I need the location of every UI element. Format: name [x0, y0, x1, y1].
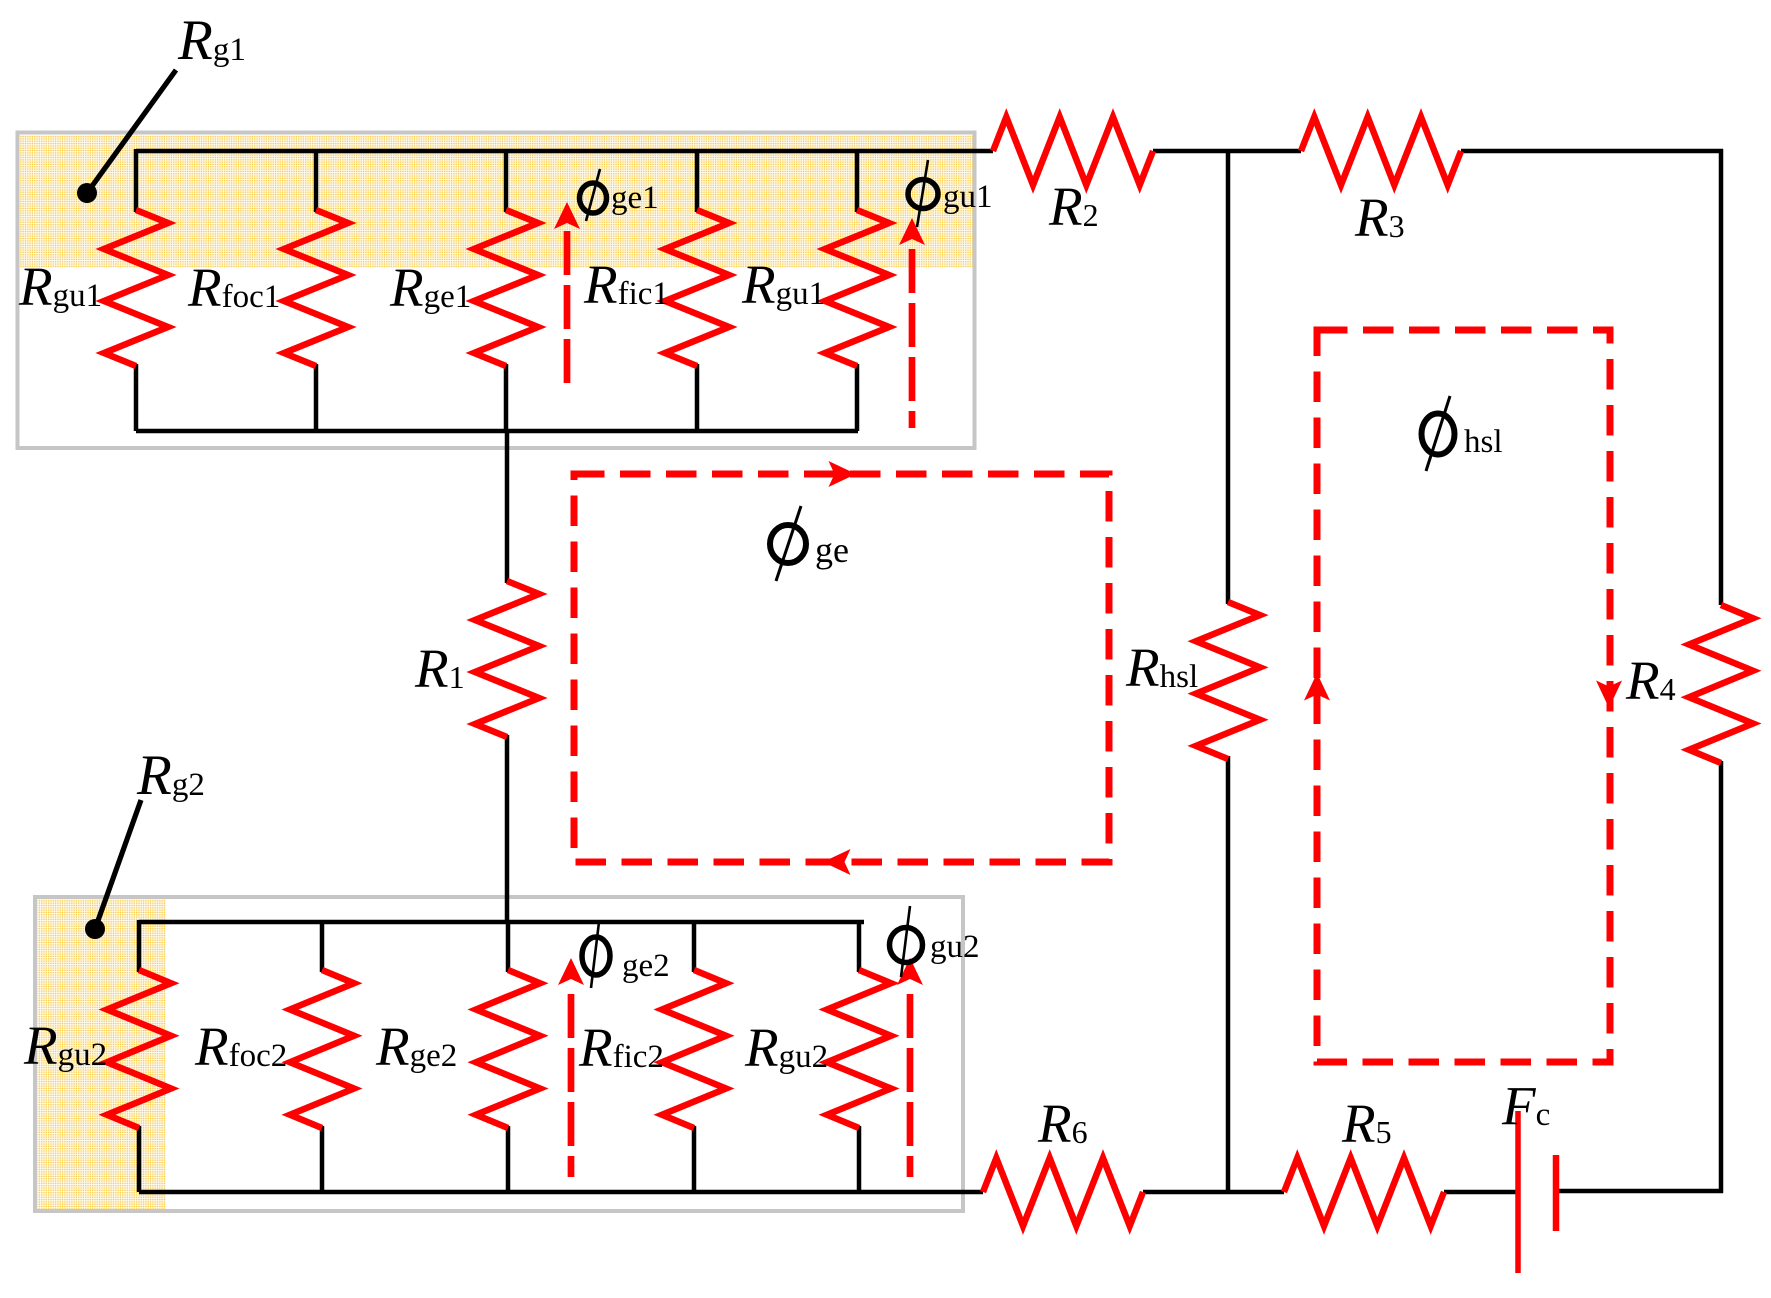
- svg-text:R4: R4: [1625, 650, 1676, 711]
- svg-text:ge: ge: [815, 530, 849, 570]
- svg-text:ge2: ge2: [622, 948, 670, 984]
- svg-text:Rhsl: Rhsl: [1125, 637, 1198, 698]
- svg-text:R1: R1: [414, 638, 465, 699]
- svg-text:Rg1: Rg1: [177, 9, 246, 72]
- svg-text:gu1: gu1: [943, 179, 993, 215]
- svg-text:gu2: gu2: [930, 929, 980, 965]
- svg-text:R5: R5: [1341, 1093, 1392, 1154]
- svg-text:Fc: Fc: [1501, 1075, 1550, 1136]
- svg-text:Rfoc2: Rfoc2: [194, 1016, 287, 1077]
- svg-text:Rg2: Rg2: [136, 744, 205, 807]
- svg-text:R2: R2: [1048, 176, 1099, 237]
- svg-text:ge1: ge1: [611, 180, 659, 216]
- svg-text:Rge2: Rge2: [375, 1016, 457, 1077]
- svg-text:R3: R3: [1354, 187, 1405, 248]
- svg-text:R6: R6: [1037, 1093, 1088, 1154]
- svg-text:Rgu2: Rgu2: [744, 1017, 828, 1078]
- svg-text:Rfic2: Rfic2: [578, 1017, 664, 1078]
- svg-text:hsl: hsl: [1464, 424, 1503, 460]
